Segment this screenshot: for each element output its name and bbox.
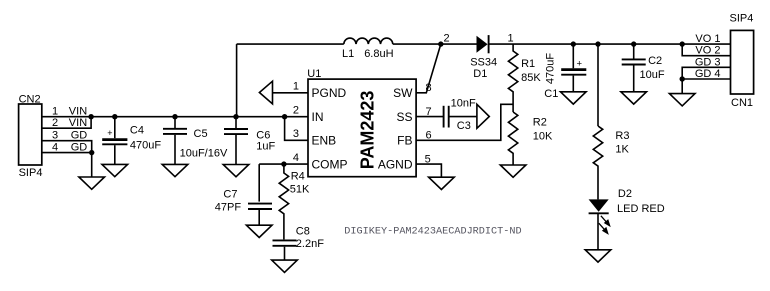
wire CN2 pin4	[42, 152, 92, 154]
ground C2	[621, 92, 647, 104]
connector CN2 body	[19, 104, 42, 165]
power-ground arrow on C3	[477, 104, 489, 128]
wire top rail D1 to CN1	[489, 43, 731, 45]
LED D2	[589, 199, 609, 211]
capacitor C6 wire top	[235, 117, 237, 129]
capacitor C6 wire bottom	[235, 135, 237, 165]
capacitor C2 plates	[622, 58, 646, 60]
capacitor C4 plates	[102, 138, 127, 141]
capacitor C2 wire top	[633, 44, 635, 59]
inductor L1	[344, 38, 393, 44]
node junction pin1/pin2	[88, 114, 93, 119]
svg-text:DIGIKEY-PAM2423AECADJRDICT-ND: DIGIKEY-PAM2423AECADJRDICT-ND	[344, 227, 521, 238]
svg-text:SS34: SS34	[470, 57, 497, 69]
svg-text:IN: IN	[312, 110, 324, 124]
node COMP/R4	[281, 161, 286, 166]
capacitor C1 wire top	[572, 44, 574, 68]
capacitor C6 plates	[224, 128, 248, 130]
ground R2	[500, 165, 526, 177]
wire ENB tie to VIN	[285, 117, 308, 141]
svg-text:PAM2423: PAM2423	[357, 91, 377, 170]
svg-text:1: 1	[52, 106, 58, 118]
wire PGND pin1 stub	[273, 92, 309, 94]
svg-text:85K: 85K	[521, 72, 541, 84]
svg-text:FB: FB	[397, 134, 412, 148]
wire CN2 pin2	[42, 117, 91, 129]
svg-text:10uF: 10uF	[640, 69, 665, 81]
diode D1	[477, 36, 488, 53]
ground C7	[246, 225, 272, 237]
ground C4	[102, 164, 128, 176]
svg-text:4: 4	[293, 152, 299, 164]
svg-text:2: 2	[293, 104, 299, 116]
wire COMP stub	[259, 163, 308, 165]
svg-text:3: 3	[293, 128, 299, 140]
wire VIN rail (CN2 pin1 to U1 IN)	[42, 116, 308, 118]
node VIN/ENB junction	[282, 114, 287, 119]
svg-text:1K: 1K	[615, 144, 629, 156]
node C1	[571, 41, 576, 46]
wire SW pin8 to top rail	[416, 44, 441, 93]
node VIN/C4	[112, 114, 117, 119]
svg-text:2: 2	[444, 33, 450, 45]
wire CN1 GD3	[682, 67, 730, 93]
capacitor C7 plates	[248, 203, 272, 205]
wire CN1 GD4	[682, 78, 730, 80]
svg-text:R3: R3	[615, 130, 629, 142]
capacitor C5 wire bottom	[174, 135, 176, 165]
svg-text:AGND: AGND	[378, 157, 413, 171]
capacitor C4 wire top	[114, 117, 116, 139]
svg-text:1: 1	[293, 81, 299, 93]
svg-text:VO 2: VO 2	[695, 45, 720, 57]
ground CN1	[669, 94, 695, 106]
wire C7 branch	[258, 164, 260, 202]
svg-text:10nF: 10nF	[451, 98, 476, 110]
svg-text:47PF: 47PF	[215, 202, 242, 214]
svg-text:R2: R2	[533, 116, 547, 128]
capacitor C1 wire bottom	[572, 76, 574, 92]
wire R3 top	[597, 44, 599, 126]
wire C3 to arrow	[449, 116, 477, 118]
capacitor C2 wire bottom	[633, 65, 635, 91]
svg-text:SIP4: SIP4	[730, 13, 754, 25]
wire riser VIN to top rail	[236, 44, 238, 117]
node SW junction	[438, 41, 443, 46]
svg-text:C4: C4	[130, 125, 144, 137]
capacitor C1 plates	[561, 68, 586, 71]
svg-text:GD 3: GD 3	[695, 56, 721, 68]
node C2	[631, 41, 636, 46]
wire CN1 VO2	[682, 44, 730, 56]
svg-text:ENB: ENB	[312, 134, 337, 148]
svg-text:1: 1	[508, 33, 514, 45]
svg-text:SS: SS	[396, 110, 412, 124]
ground C8	[272, 260, 298, 272]
svg-text:1uF: 1uF	[256, 141, 275, 153]
resistor R1	[508, 44, 517, 112]
capacitor C5 wire top	[174, 117, 176, 128]
svg-text:C7: C7	[223, 189, 237, 201]
svg-text:C2: C2	[648, 55, 662, 67]
wire SS pin7 stub	[416, 116, 444, 118]
node R3	[595, 41, 600, 46]
svg-text:D1: D1	[473, 68, 487, 80]
connector CN1 body	[731, 30, 754, 94]
node junction pin3/pin4	[89, 150, 94, 155]
ground C6	[223, 165, 249, 177]
svg-text:U1: U1	[307, 68, 321, 80]
svg-text:L1: L1	[342, 48, 354, 60]
svg-text:COMP: COMP	[312, 157, 348, 171]
node VIN/C6/riser	[233, 114, 238, 119]
svg-text:2.2nF: 2.2nF	[296, 238, 324, 250]
wire AGND pin5	[416, 164, 441, 177]
capacitor C3 plates	[443, 106, 445, 128]
LED D2 light arrows	[599, 216, 610, 234]
capacitor C8 plates	[273, 239, 297, 241]
ground CN2	[79, 177, 105, 189]
svg-text:C1: C1	[544, 88, 558, 100]
capacitor C5 plates	[163, 128, 187, 130]
IC U1 body	[308, 79, 416, 177]
ground C5	[162, 164, 188, 176]
svg-text:+: +	[577, 59, 583, 70]
wire top rail left segment	[237, 43, 344, 45]
svg-text:LED RED: LED RED	[617, 203, 665, 215]
svg-text:+: +	[107, 128, 112, 138]
svg-text:R1: R1	[521, 58, 535, 70]
ground AGND	[429, 177, 455, 189]
wire CN2 pin3	[42, 141, 92, 177]
svg-text:470uF: 470uF	[545, 53, 557, 84]
capacitor C7 wire bottom	[258, 210, 260, 225]
node CN1 VO branch	[680, 41, 685, 46]
resistor R4	[279, 164, 288, 239]
svg-text:SW: SW	[393, 86, 413, 100]
svg-text:51K: 51K	[290, 184, 310, 196]
node junction GD3/GD4	[680, 76, 685, 81]
svg-text:CN2: CN2	[19, 93, 41, 105]
svg-text:6.8uH: 6.8uH	[364, 48, 393, 60]
capacitor C8 wire bottom	[284, 247, 286, 260]
svg-text:D2: D2	[618, 188, 632, 200]
svg-text:R4: R4	[291, 171, 305, 183]
svg-text:SIP4: SIP4	[19, 167, 43, 179]
svg-text:10uF/16V: 10uF/16V	[180, 148, 228, 160]
wire top rail L1 to D1	[393, 43, 477, 45]
svg-text:C8: C8	[296, 226, 310, 238]
svg-text:C3: C3	[457, 120, 471, 132]
svg-text:VO 1: VO 1	[695, 33, 720, 45]
svg-text:VIN: VIN	[69, 106, 87, 118]
ground C1	[561, 92, 587, 104]
ground D2	[585, 250, 611, 262]
capacitor C4 wire bottom	[114, 145, 116, 164]
wire FB pin6	[416, 104, 513, 140]
resistor R3	[593, 126, 602, 199]
svg-text:470uF: 470uF	[130, 140, 161, 152]
svg-text:GD 4: GD 4	[695, 68, 721, 80]
power-ground arrow on PGND	[259, 81, 272, 104]
svg-text:C5: C5	[194, 128, 208, 140]
svg-text:10K: 10K	[533, 131, 553, 143]
svg-text:CN1: CN1	[731, 97, 753, 109]
node VIN/C5	[172, 114, 177, 119]
resistor R2	[508, 112, 517, 165]
svg-text:PGND: PGND	[312, 86, 347, 100]
wire D2 to ground	[597, 213, 599, 250]
